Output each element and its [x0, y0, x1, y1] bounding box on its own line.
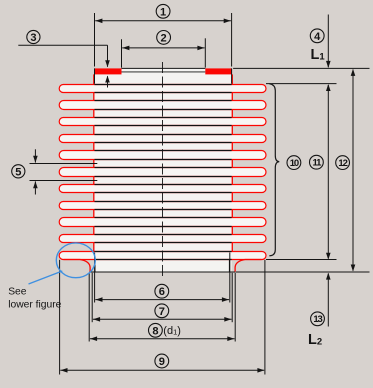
label 11 — [310, 155, 324, 169]
label 10 — [287, 156, 301, 170]
svg-text:8: 8 — [152, 325, 158, 337]
shed fin 2 — [59, 101, 266, 110]
svg-text:4: 4 — [314, 31, 321, 43]
insulator core body — [95, 68, 232, 272]
dim 2 distance between glaze bands — [121, 39, 123, 67]
dim 13 L2 bottom cap height — [327, 274, 329, 327]
dim 3 glaze band thickness — [18, 44, 107, 46]
dim 8 d1 diameter — [88, 273, 90, 342]
svg-text:1: 1 — [160, 6, 166, 18]
dim 10 brace over sheds — [269, 84, 279, 256]
bottom shoulder right — [235, 260, 261, 272]
top cap glaze band left — [95, 68, 122, 74]
svg-text:9: 9 — [159, 356, 165, 368]
bottom cap right edge — [228, 260, 230, 273]
shed fin 11 — [59, 252, 266, 260]
dim 12 total body height — [352, 70, 354, 271]
top cap inner line — [122, 71, 206, 73]
label 12 — [336, 156, 350, 170]
label 4 — [310, 29, 324, 43]
bottom cap bottom line — [89, 271, 235, 273]
shed fin 10 — [59, 235, 266, 243]
shed root edge left — [93, 74, 95, 259]
svg-text:lower figure: lower figure — [8, 299, 61, 310]
shed fin 9 — [59, 218, 266, 227]
label 2 — [157, 31, 171, 45]
dim 11 shed section height — [327, 85, 329, 258]
shed fin 1 — [59, 85, 266, 93]
label 13 — [311, 312, 325, 326]
top cap left edge — [94, 68, 96, 83]
shed fin 4 — [59, 135, 266, 143]
shed fin 6 — [59, 168, 266, 177]
shed fin 8 — [59, 202, 266, 210]
top cap right edge — [231, 68, 233, 83]
dim 5 shed pitch — [30, 163, 98, 165]
bottom cap left edge — [94, 260, 96, 273]
callout leader — [29, 271, 63, 284]
label 3 — [27, 30, 40, 43]
dim 1 width of top cap — [94, 13, 96, 67]
shed fin 7 — [59, 185, 266, 193]
svg-text:See: See — [8, 286, 27, 297]
label 9 — [155, 354, 169, 368]
label 7 — [155, 304, 169, 318]
callout circle — [56, 243, 95, 278]
svg-text:6: 6 — [159, 286, 165, 298]
extension lines right — [233, 67, 369, 69]
shed fin 5 — [59, 151, 266, 160]
top cap glaze band right — [205, 68, 231, 74]
top cap top surface line — [122, 67, 206, 69]
svg-text:10: 10 — [290, 158, 299, 169]
svg-text:7: 7 — [159, 306, 165, 318]
dim 7 glaze diameter — [91, 273, 93, 322]
label 1 — [156, 4, 170, 18]
dim 9 overall shed diameter — [59, 260, 61, 375]
center line — [162, 62, 164, 279]
svg-text:(d1): (d1) — [163, 325, 181, 337]
shed root edge right — [231, 74, 233, 259]
label 8 — [149, 323, 163, 337]
shed fin 3 — [59, 118, 266, 126]
svg-text:12: 12 — [338, 158, 347, 169]
dim 6 bottom cap diameter — [94, 253, 96, 303]
svg-text:13: 13 — [313, 314, 322, 325]
label 5 — [12, 165, 25, 178]
svg-text:2: 2 — [161, 32, 167, 44]
bottom shoulder left — [64, 260, 91, 272]
shed contour lines — [95, 84, 232, 86]
dim 4 L1 top cap height — [327, 15, 329, 68]
svg-text:3: 3 — [30, 32, 36, 44]
label 6 — [155, 284, 169, 298]
svg-text:5: 5 — [15, 166, 21, 178]
